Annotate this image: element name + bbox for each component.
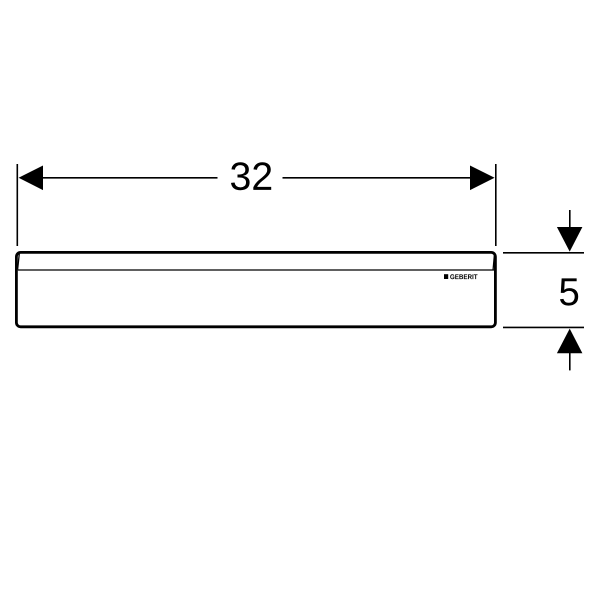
arrowhead down <box>557 227 583 252</box>
shelf lip left slant <box>18 254 20 270</box>
label 32 <box>231 162 271 190</box>
dimension line 32 left segment <box>40 177 218 179</box>
dimension line 32 right segment <box>283 177 474 179</box>
shelf lip right slant <box>493 254 494 270</box>
arrowhead up <box>557 329 583 354</box>
arrowhead left <box>19 166 43 191</box>
arrowhead right <box>470 166 495 191</box>
shelf outline <box>16 252 495 326</box>
arrow stem top <box>569 210 571 228</box>
geberit logo text <box>450 274 477 279</box>
extension line right <box>495 164 497 246</box>
arrow stem bottom <box>569 352 571 370</box>
shelf lip line <box>18 269 494 271</box>
reference line bottom right <box>503 326 584 328</box>
label 5 <box>560 278 578 305</box>
extension line left <box>16 164 18 246</box>
geberit logo square <box>444 274 448 279</box>
reference line top right <box>503 252 584 254</box>
